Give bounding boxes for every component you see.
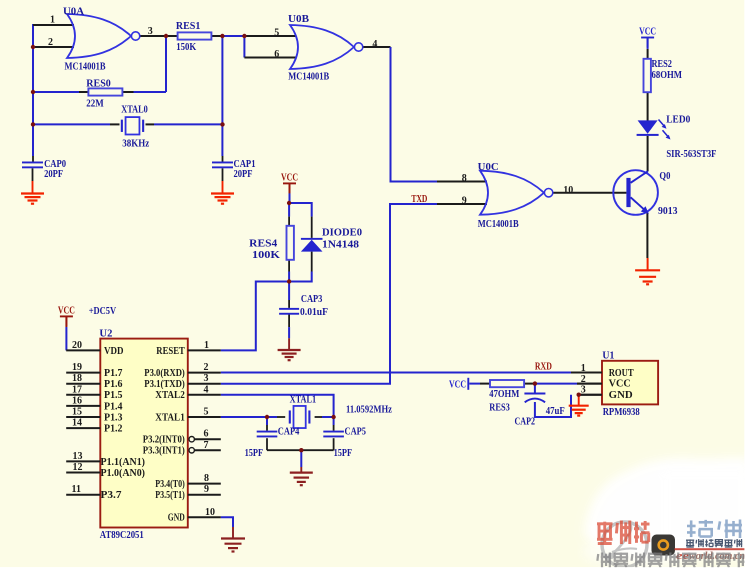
svg-text:3: 3 bbox=[204, 373, 209, 384]
svg-text:XTAL1: XTAL1 bbox=[290, 395, 317, 406]
svg-text:9: 9 bbox=[204, 484, 209, 495]
svg-text:VCC: VCC bbox=[449, 380, 466, 391]
svg-text:10: 10 bbox=[205, 507, 215, 518]
svg-text:8: 8 bbox=[204, 473, 209, 484]
svg-text:10: 10 bbox=[563, 185, 573, 196]
svg-text:47OHM: 47OHM bbox=[489, 389, 519, 400]
svg-text:U0B: U0B bbox=[288, 14, 309, 25]
svg-text:XTAL0: XTAL0 bbox=[121, 105, 148, 116]
svg-text:4: 4 bbox=[372, 39, 377, 50]
svg-text:20PF: 20PF bbox=[234, 169, 253, 180]
svg-text:P1.6: P1.6 bbox=[104, 379, 123, 390]
svg-text:3: 3 bbox=[581, 385, 586, 396]
svg-text:20: 20 bbox=[72, 340, 82, 351]
svg-text:XTAL2: XTAL2 bbox=[155, 390, 185, 401]
svg-text:47uF: 47uF bbox=[546, 406, 565, 417]
svg-text:38KHz: 38KHz bbox=[122, 139, 150, 150]
svg-text:LED0: LED0 bbox=[666, 115, 690, 126]
svg-text:RESET: RESET bbox=[156, 346, 185, 357]
svg-text:22M: 22M bbox=[86, 99, 104, 110]
svg-text:VDD: VDD bbox=[104, 346, 124, 357]
svg-text:U1: U1 bbox=[602, 350, 614, 361]
svg-text:7: 7 bbox=[204, 440, 209, 451]
svg-text:1: 1 bbox=[204, 340, 209, 351]
svg-text:0.01uF: 0.01uF bbox=[300, 307, 328, 318]
svg-text:GND: GND bbox=[609, 390, 633, 401]
svg-text:8: 8 bbox=[462, 173, 467, 184]
svg-text:3: 3 bbox=[148, 26, 153, 37]
svg-text:P1.1(AN1): P1.1(AN1) bbox=[101, 457, 146, 468]
svg-text:P1.3: P1.3 bbox=[104, 412, 123, 423]
svg-text:RES3: RES3 bbox=[489, 402, 510, 413]
svg-text:9013: 9013 bbox=[658, 206, 678, 217]
svg-text:XTAL1: XTAL1 bbox=[155, 412, 185, 423]
svg-text:2: 2 bbox=[48, 37, 53, 48]
svg-text:GND: GND bbox=[168, 513, 185, 524]
svg-text:15: 15 bbox=[72, 407, 82, 418]
svg-text:P3.1(TXD): P3.1(TXD) bbox=[144, 379, 185, 390]
svg-text:MC14001B: MC14001B bbox=[65, 62, 106, 73]
svg-text:18: 18 bbox=[72, 373, 82, 384]
svg-text:11.0592MHz: 11.0592MHz bbox=[346, 405, 392, 416]
svg-text:DIODE0: DIODE0 bbox=[322, 228, 362, 239]
svg-text:2: 2 bbox=[204, 362, 209, 373]
svg-text:P3.7: P3.7 bbox=[101, 490, 122, 501]
svg-text:MC14001B: MC14001B bbox=[288, 72, 329, 83]
svg-text:15PF: 15PF bbox=[334, 448, 353, 459]
svg-text:P3.2(INT0): P3.2(INT0) bbox=[143, 435, 185, 446]
svg-text:P1.0(AN0): P1.0(AN0) bbox=[101, 468, 146, 479]
svg-text:VCC: VCC bbox=[281, 172, 298, 183]
svg-text:16: 16 bbox=[72, 395, 82, 406]
svg-text:1N4148: 1N4148 bbox=[322, 240, 359, 251]
svg-text:2: 2 bbox=[581, 374, 586, 385]
svg-text:CAP5: CAP5 bbox=[345, 427, 367, 438]
svg-text:17: 17 bbox=[72, 384, 82, 395]
svg-text:U2: U2 bbox=[99, 329, 112, 340]
svg-text:6: 6 bbox=[204, 429, 209, 440]
svg-text:RES4: RES4 bbox=[249, 238, 277, 249]
svg-text:P1.2: P1.2 bbox=[104, 424, 123, 435]
svg-text:13: 13 bbox=[73, 451, 83, 462]
svg-text:P1.4: P1.4 bbox=[104, 401, 123, 412]
svg-text:RPM6938: RPM6938 bbox=[603, 407, 640, 418]
svg-text:P3.0(RXD): P3.0(RXD) bbox=[144, 368, 185, 379]
svg-text:14: 14 bbox=[72, 418, 82, 429]
svg-text:12: 12 bbox=[73, 462, 83, 473]
svg-text:MC14001B: MC14001B bbox=[478, 219, 519, 230]
svg-text:CAP3: CAP3 bbox=[301, 294, 323, 305]
svg-text:RES2: RES2 bbox=[652, 59, 673, 70]
svg-text:RES1: RES1 bbox=[176, 21, 201, 32]
svg-text:P1.7: P1.7 bbox=[104, 368, 123, 379]
svg-text:CAP4: CAP4 bbox=[278, 427, 300, 438]
svg-text:11: 11 bbox=[72, 484, 81, 495]
svg-text:P3.3(INT1): P3.3(INT1) bbox=[143, 446, 185, 457]
svg-text:Q0: Q0 bbox=[659, 171, 670, 182]
svg-text:VCC: VCC bbox=[639, 27, 656, 38]
svg-text:15PF: 15PF bbox=[245, 448, 264, 459]
svg-text:TXD: TXD bbox=[411, 194, 427, 205]
svg-text:100K: 100K bbox=[252, 250, 280, 261]
svg-text:ROUT: ROUT bbox=[609, 368, 634, 379]
svg-text:VCC: VCC bbox=[58, 305, 75, 316]
svg-text:U0A: U0A bbox=[63, 7, 85, 18]
svg-text:SIR-563ST3F: SIR-563ST3F bbox=[666, 149, 716, 160]
svg-text:RES0: RES0 bbox=[86, 78, 111, 89]
svg-text:9: 9 bbox=[462, 196, 467, 207]
svg-text:AT89C2051: AT89C2051 bbox=[100, 530, 144, 541]
svg-text:P1.5: P1.5 bbox=[104, 390, 123, 401]
svg-text:20PF: 20PF bbox=[44, 169, 63, 180]
svg-text:P3.4(T0): P3.4(T0) bbox=[155, 479, 185, 490]
svg-text:68OHM: 68OHM bbox=[652, 70, 683, 81]
svg-text:5: 5 bbox=[204, 407, 209, 418]
svg-text:P3.5(T1): P3.5(T1) bbox=[155, 490, 185, 501]
svg-text:U0C: U0C bbox=[478, 162, 499, 173]
svg-text:+DC5V: +DC5V bbox=[89, 306, 117, 317]
svg-text:CAP2: CAP2 bbox=[515, 417, 536, 428]
svg-text:VCC: VCC bbox=[609, 379, 631, 390]
svg-text:4: 4 bbox=[204, 384, 209, 395]
svg-text:150K: 150K bbox=[176, 42, 196, 53]
svg-text:1: 1 bbox=[581, 363, 586, 374]
svg-text:6: 6 bbox=[274, 49, 279, 60]
svg-text:19: 19 bbox=[72, 362, 82, 373]
svg-text:1: 1 bbox=[50, 15, 55, 26]
svg-text:5: 5 bbox=[274, 28, 279, 39]
svg-text:RXD: RXD bbox=[535, 362, 552, 373]
